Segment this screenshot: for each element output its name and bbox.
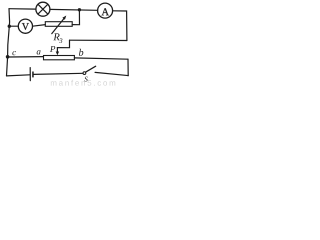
label A [102, 8, 109, 15]
wire riser to slider [57, 40, 69, 48]
wire left vertical [7, 9, 10, 76]
label a [37, 50, 41, 54]
wire switch to battery [34, 73, 83, 74]
battery negative plate [32, 72, 34, 78]
wire R3 to top junction [72, 10, 79, 25]
voltmeter V [18, 19, 32, 33]
lamp L1 [36, 2, 50, 16]
resistor R3 box [45, 22, 72, 27]
wire bottom right to switch [95, 72, 128, 75]
watermark [51, 80, 115, 86]
wire voltmeter to R3 [33, 25, 46, 27]
node c junction [6, 55, 10, 59]
wire top-left to lamp [9, 8, 36, 10]
wire ammeter to top-right corner [113, 11, 127, 41]
label R3 = R [53, 33, 59, 40]
label V [22, 23, 29, 30]
node V junction [8, 25, 11, 28]
wire a-terminal [9, 56, 44, 58]
wire right-lower vertical [127, 59, 129, 75]
wire battery to bottom-left corner [7, 75, 30, 76]
wire mid horizontal [70, 39, 127, 41]
battery positive plate [29, 68, 31, 81]
node junction top [78, 8, 81, 11]
wire b-terminal to right [74, 58, 128, 59]
wire lamp to ammeter [50, 8, 98, 11]
R3 arrow [52, 18, 65, 33]
label c [12, 51, 16, 55]
wire to voltmeter [9, 25, 18, 27]
ammeter A [98, 3, 113, 18]
slider P arrow [56, 48, 58, 53]
label R3 subscript 3 [59, 38, 62, 43]
label P [50, 46, 55, 52]
switch S lever [86, 66, 96, 72]
label S [84, 77, 87, 82]
rheostat box [44, 56, 75, 60]
label b [79, 49, 83, 56]
switch S pivot [83, 72, 86, 75]
